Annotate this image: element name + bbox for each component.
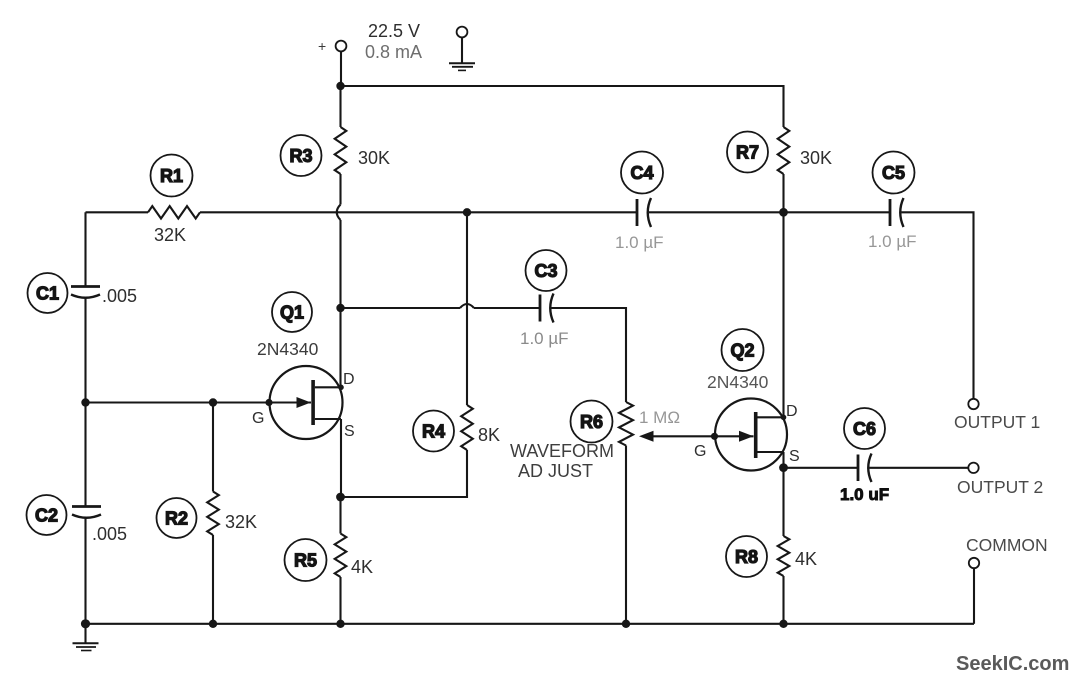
designator circle R8 — [726, 536, 767, 577]
capacitor C5 1.0uF — [890, 198, 904, 227]
node COMMON terminal — [969, 558, 979, 568]
designator circle C2 — [27, 495, 67, 535]
designator circle C4 — [621, 152, 663, 194]
label WAVEFORM ADJUST — [510, 441, 614, 481]
svg-text:S: S — [789, 448, 800, 465]
svg-text:D: D — [343, 371, 355, 388]
wire Q2 drain up to rail — [782, 212, 784, 417]
designator circle Q2 — [722, 329, 764, 371]
svg-text:2N4340: 2N4340 — [707, 372, 769, 392]
junction ground bus / R5 — [336, 620, 344, 628]
wire hop to C3 left plate — [474, 307, 540, 309]
resistor R1 32K — [148, 206, 200, 218]
wire hop: R3/drain line over feedback rail — [337, 205, 341, 221]
svg-text:1.0 µF: 1.0 µF — [615, 233, 664, 252]
svg-text:OUTPUT 1: OUTPUT 1 — [954, 412, 1040, 432]
svg-text:1 MΩ: 1 MΩ — [639, 408, 680, 427]
junction ground bus / R6 — [622, 620, 630, 628]
capacitor C2 .005 — [72, 507, 101, 518]
wire Q1 source down — [340, 419, 342, 497]
designator circle C3 — [526, 250, 567, 291]
wire C1 to gate node — [84, 299, 86, 507]
node + supply terminal 22.5V — [318, 38, 346, 54]
wire COMMON to ground bus — [973, 568, 975, 624]
svg-text:.005: .005 — [102, 286, 137, 306]
svg-text:R3: R3 — [289, 146, 312, 166]
node OUTPUT 2 terminal — [968, 463, 978, 473]
capacitor C4 1.0uF — [637, 198, 651, 227]
svg-text:AD JUST: AD JUST — [518, 461, 593, 481]
ground (chassis, supply return) — [449, 27, 475, 71]
svg-text:30K: 30K — [800, 148, 832, 168]
resistor R5 4K — [335, 497, 347, 624]
resistor R7 30K — [778, 127, 790, 212]
wire R4 top from rail — [466, 212, 468, 405]
svg-text:R5: R5 — [294, 551, 317, 571]
svg-text:30K: 30K — [358, 148, 390, 168]
junction R2 top — [209, 398, 217, 406]
wire rail C5 to output corner — [902, 212, 974, 398]
svg-text:1.0 µF: 1.0 µF — [520, 329, 569, 348]
wire drain line down to C3 tap — [339, 220, 341, 308]
svg-text:4K: 4K — [795, 549, 817, 569]
wire Q2 source to C6 — [784, 467, 859, 469]
wire Q1 gate line — [86, 401, 271, 403]
junction supply node — [336, 82, 344, 90]
wire top rail y=86 — [341, 86, 784, 127]
svg-text:G: G — [252, 410, 264, 427]
svg-text:COMMON: COMMON — [966, 535, 1048, 555]
capacitor C3 1.0uF — [540, 294, 554, 323]
svg-text:32K: 32K — [225, 512, 257, 532]
resistor R4 8K — [341, 405, 473, 497]
designator circle R3 — [281, 135, 322, 176]
svg-text:22.5 V: 22.5 V — [368, 21, 420, 41]
capacitor C6 1.0uF — [858, 454, 872, 483]
wire rail C4 to C5 — [649, 211, 890, 213]
svg-text:32K: 32K — [154, 225, 186, 245]
svg-text:D: D — [786, 403, 798, 420]
svg-text:WAVEFORM: WAVEFORM — [510, 441, 614, 461]
designator circle R7 — [727, 132, 768, 173]
resistor R2 32K — [207, 403, 219, 624]
svg-text:C5: C5 — [882, 163, 905, 183]
wire ground bus — [86, 623, 975, 625]
svg-text:C2: C2 — [35, 506, 58, 526]
junction ground bus / R8 — [779, 620, 787, 628]
wire drain tap to C3 — [341, 307, 461, 309]
junction ground bus / R2 — [209, 620, 217, 628]
svg-text:C6: C6 — [853, 419, 876, 439]
wire left branch top — [84, 212, 86, 286]
svg-text:SeekIC.com: SeekIC.com — [956, 653, 1069, 675]
svg-text:Q2: Q2 — [730, 341, 754, 361]
svg-text:R4: R4 — [422, 422, 445, 442]
svg-text:OUTPUT 2: OUTPUT 2 — [957, 477, 1043, 497]
wire C2 to ground bus — [84, 519, 86, 624]
junction Q2 drain node on rail — [779, 208, 788, 217]
junction Q1 source / R4 / R5 — [336, 493, 345, 502]
designator circle R2 — [157, 498, 197, 538]
svg-text:R6: R6 — [580, 412, 603, 432]
svg-text:C3: C3 — [534, 261, 557, 281]
designator circle C1 — [28, 273, 68, 313]
svg-text:C1: C1 — [36, 284, 59, 304]
svg-text:S: S — [344, 423, 355, 440]
designator circle R1 — [151, 155, 193, 197]
svg-text:G: G — [694, 443, 706, 460]
svg-text:R1: R1 — [160, 166, 183, 186]
transistor Q2 2N4340 JFET — [711, 399, 787, 471]
svg-text:1.0 µF: 1.0 µF — [868, 232, 917, 251]
svg-text:2N4340: 2N4340 — [257, 339, 319, 359]
junction gate at Q1 — [265, 399, 272, 406]
svg-text:R7: R7 — [736, 143, 759, 163]
wire C6 to OUTPUT 2 — [870, 467, 969, 469]
wire C3 to R6 top — [552, 308, 627, 402]
junction Q1 drain / C3 tap — [336, 304, 344, 312]
svg-text:C4: C4 — [630, 163, 653, 183]
wire feedback rail to C4 — [200, 211, 637, 213]
ground (bottom left) — [73, 624, 99, 651]
designator circle R6 — [571, 401, 613, 443]
svg-text:8K: 8K — [478, 425, 500, 445]
junction rail / R4 top — [463, 208, 471, 216]
junction ground bus / C2 — [81, 619, 90, 628]
svg-text:1.0 uF: 1.0 uF — [840, 485, 889, 504]
designator circle Q1 — [272, 292, 312, 332]
junction gate node left — [81, 398, 89, 406]
wire feedback rail left segment — [86, 211, 149, 213]
svg-text:0.8 mA: 0.8 mA — [365, 42, 422, 62]
wire hop: C3 line over R4 line — [460, 304, 474, 308]
designator circle C5 — [873, 152, 915, 194]
wire drain tap down to Q1 D — [339, 308, 341, 388]
designator circle R4 — [413, 411, 454, 452]
svg-text:4K: 4K — [351, 557, 373, 577]
potentiometer R6 1 Mohm WAVEFORM ADJUST — [619, 402, 714, 624]
svg-text:R2: R2 — [165, 509, 188, 529]
svg-text:Q1: Q1 — [280, 303, 304, 323]
svg-text:R8: R8 — [735, 547, 758, 567]
junction Q2 source / C6 / R8 — [779, 463, 788, 472]
designator circle C6 — [844, 408, 885, 449]
designator circle R5 — [285, 539, 327, 581]
resistor R3 30K — [335, 86, 347, 205]
capacitor C1 .005 — [71, 287, 100, 298]
svg-text:+: + — [318, 38, 326, 54]
wire supply terminal to top rail — [340, 51, 342, 86]
transistor Q1 2N4340 JFET — [270, 366, 344, 439]
svg-text:.005: .005 — [92, 524, 127, 544]
resistor R8 4K — [778, 468, 790, 624]
node OUTPUT 1 terminal — [968, 399, 978, 409]
